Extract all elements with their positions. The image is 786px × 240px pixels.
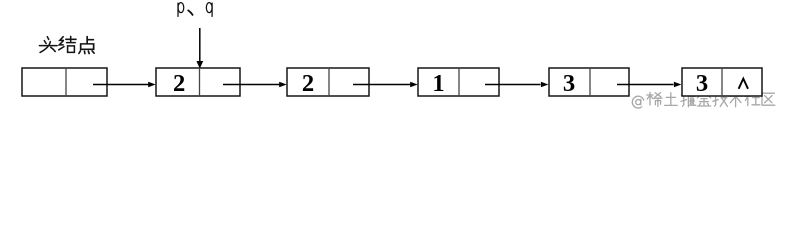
土 [665, 93, 678, 106]
pointer arrow p,q down to node 1 [196, 28, 203, 69]
node box N5 value 3, tail [682, 68, 762, 97]
node box N3 value 1 [418, 68, 499, 97]
wire N4 to N5 [617, 82, 681, 88]
点 [79, 37, 94, 54]
label p、q [178, 3, 212, 17]
null marker ^ [739, 79, 748, 89]
node box N1 value 2 [156, 68, 240, 97]
wire N3 to N4 [485, 82, 548, 88]
wire N1 to N2 [223, 82, 287, 88]
p [178, 3, 184, 17]
掘 [681, 92, 696, 106]
稀 [647, 92, 662, 106]
q [206, 3, 212, 17]
金 [697, 92, 710, 106]
svg-text:3: 3 [563, 70, 575, 97]
区 [762, 93, 775, 105]
svg-text:2: 2 [173, 70, 185, 97]
技 [713, 92, 728, 106]
svg-text:2: 2 [302, 70, 314, 97]
wire head to node 1 [93, 82, 156, 88]
wire N2 to N3 [353, 82, 418, 88]
watermark @稀土掘金技术社区 [632, 92, 774, 108]
svg-text:3: 3 [696, 70, 708, 97]
头 [39, 37, 57, 53]
结 [59, 36, 76, 52]
node box N4 value 3 [549, 68, 629, 97]
svg-text:1: 1 [432, 70, 444, 97]
术 [729, 92, 743, 106]
head node box [22, 68, 107, 96]
社 [745, 92, 760, 105]
node box N2 value 2 [287, 68, 369, 97]
、 [188, 10, 192, 15]
@ [632, 96, 643, 108]
label 头结点 (head node) [39, 36, 94, 53]
